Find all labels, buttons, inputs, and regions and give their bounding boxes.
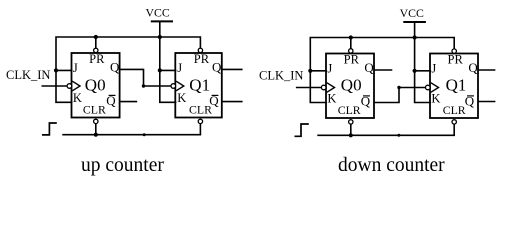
pin: Q0 clock edge triangle (right) bbox=[327, 83, 335, 93]
pin: Q1 clock edge triangle bbox=[176, 81, 184, 91]
pin: Q0 PR bubble (right) bbox=[349, 49, 353, 53]
svg-text:Q: Q bbox=[212, 59, 222, 74]
svg-text:CLR: CLR bbox=[189, 102, 212, 116]
wire: Q0.Q to Q1 clock bbox=[120, 69, 172, 86]
svg-text:J: J bbox=[327, 61, 332, 75]
svg-text:VCC: VCC bbox=[400, 6, 424, 20]
pin: Q0 CLR bubble (right) bbox=[349, 120, 353, 124]
node: small dot on CLR rail (right) bbox=[397, 134, 400, 137]
svg-text:down counter: down counter bbox=[338, 155, 445, 176]
node: Q1 J junction dot bbox=[158, 68, 162, 72]
svg-text:K: K bbox=[327, 92, 336, 106]
node: Q0 J junction dot (right) bbox=[308, 69, 312, 73]
node: Q0 PR junction dot on rail (right) bbox=[349, 35, 353, 39]
flip-flop Q1 (left) box bbox=[175, 53, 222, 118]
symbol: clock rising edge (right) bbox=[295, 124, 309, 136]
wire: Q1 Qbar output stub (right) bbox=[478, 101, 495, 103]
pin: Q0 clock bubble (right) bbox=[321, 85, 326, 90]
pin: Q1 clock edge triangle (right) bbox=[431, 83, 439, 93]
pin: Q1 PR bubble (right) bbox=[452, 49, 456, 53]
svg-text:J: J bbox=[431, 61, 436, 75]
wire: Q1 Q output stub (right) bbox=[478, 69, 495, 71]
wire: Q0 PR drop (right) bbox=[350, 38, 352, 49]
node: Q0 CLR junction dot bbox=[94, 133, 98, 137]
svg-text:CLR: CLR bbox=[338, 103, 361, 117]
wire: CLK_IN to Q0 clock (right) bbox=[296, 87, 322, 89]
wire: Q0 PR drop bbox=[95, 37, 97, 48]
node: Q0 PR junction dot on rail bbox=[94, 35, 98, 39]
wire: Q0 CLR drop bbox=[95, 124, 97, 135]
node: small dot on CLR rail bbox=[143, 133, 146, 136]
wire: Q1 Qbar output stub bbox=[222, 101, 243, 103]
flip-flop Q0 (left) box bbox=[72, 53, 120, 118]
svg-text:PR: PR bbox=[194, 52, 210, 66]
svg-text:Q: Q bbox=[364, 60, 374, 75]
svg-text:PR: PR bbox=[89, 52, 105, 66]
svg-text:VCC: VCC bbox=[145, 6, 169, 20]
pin: Q0 CLR bubble bbox=[94, 119, 98, 123]
node: corner dot Q0.Q route bbox=[142, 84, 145, 87]
svg-text:PR: PR bbox=[344, 52, 360, 66]
wire: CLR bottom rail (right) bbox=[317, 124, 454, 135]
svg-text:CLR: CLR bbox=[443, 103, 466, 117]
pin: Q1 clock bubble bbox=[171, 84, 176, 89]
wire: CLR bottom rail (left) bbox=[62, 124, 200, 135]
wire: Q1 Q output stub bbox=[222, 68, 243, 70]
symbol: clock rising edge (left) bbox=[42, 123, 57, 135]
wire: VCC drop / Q1 J,K bus with K branch bbox=[160, 22, 177, 103]
svg-text:Q0: Q0 bbox=[85, 76, 106, 95]
pin: Q1 clock bubble (right) bbox=[426, 85, 431, 90]
pin: Q0 PR bubble bbox=[94, 48, 98, 52]
svg-text:Q0: Q0 bbox=[341, 76, 362, 95]
svg-text:J: J bbox=[73, 61, 78, 75]
flip-flop Q0 (right) box bbox=[326, 54, 374, 119]
svg-text:K: K bbox=[431, 92, 440, 106]
flip-flop Q1 (right) box bbox=[430, 54, 478, 119]
pin: Q1 PR bubble bbox=[198, 48, 202, 52]
node: Q0 J junction dot bbox=[54, 68, 58, 72]
pin: Q0 clock edge triangle bbox=[72, 81, 80, 91]
wire: Q0 J branch (right) bbox=[310, 70, 327, 72]
svg-text:Q: Q bbox=[110, 59, 120, 74]
wire: CLK_IN to Q0 clock bbox=[42, 85, 68, 87]
pin: Q1 CLR bubble (right) bbox=[452, 120, 456, 124]
pin: Q1 CLR bubble bbox=[198, 119, 202, 123]
svg-text:K: K bbox=[177, 91, 186, 105]
wire: Q0 CLR drop (right) bbox=[350, 124, 352, 135]
svg-text:Q: Q bbox=[468, 60, 478, 75]
svg-text:PR: PR bbox=[448, 52, 464, 66]
node: junction dot VCC on top rail (right) bbox=[413, 35, 417, 39]
node: junction dot VCC on top rail bbox=[158, 35, 162, 39]
wire: VCC top rail (right) with Q1 PR drop, Q0 J/K bus and K branch bbox=[310, 38, 454, 103]
wire: Q0 J branch bbox=[56, 69, 72, 71]
wire: VCC top rail (left) with Q1 PR drop, Q0 J/K bus and K branch bbox=[56, 37, 200, 102]
svg-text:K: K bbox=[73, 91, 82, 105]
wire: Q1 J branch bbox=[160, 69, 177, 71]
svg-text:Q1: Q1 bbox=[446, 76, 467, 95]
wire: Q0 Q output stub (right) bbox=[374, 69, 392, 71]
svg-text:CLK_IN: CLK_IN bbox=[6, 68, 50, 82]
wire: Q0.Qbar to Q1 clock (right) bbox=[374, 88, 426, 103]
svg-text:CLK_IN: CLK_IN bbox=[259, 69, 303, 83]
wire: VCC drop / Q1 J,K bus with K branch (right) bbox=[415, 22, 431, 102]
svg-text:up counter: up counter bbox=[81, 155, 164, 176]
wire: Q0 Qbar stub bbox=[120, 101, 138, 103]
wire: Q1 J branch (right) bbox=[415, 70, 431, 72]
svg-text:Q1: Q1 bbox=[189, 76, 210, 95]
node: Q1 J junction dot (right) bbox=[413, 69, 417, 73]
node: Q0 CLR junction dot (right) bbox=[349, 133, 353, 137]
svg-text:CLR: CLR bbox=[83, 102, 106, 116]
node: corner dot Q0.Qbar route (right) bbox=[397, 86, 400, 89]
pin: Q0 clock bubble bbox=[67, 84, 72, 89]
svg-text:J: J bbox=[177, 61, 182, 75]
